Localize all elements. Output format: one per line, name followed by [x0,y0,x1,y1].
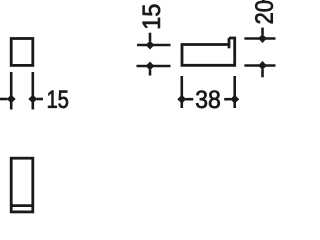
label 20 vertical [255,1,273,24]
dim38 extension line A [181,76,184,108]
dim15 left stub left [0,98,7,101]
dim38 stub right [224,98,231,101]
side view tab left leg [228,38,231,48]
plan view tab line [12,204,33,207]
label 15 horizontal [48,91,68,108]
dim38 stub left [186,98,194,101]
label 15 vertical [143,5,160,28]
dim15 left stub right [37,98,43,101]
dim15v extension top [137,44,171,47]
arrow dim15 left A [7,95,16,104]
dim15v stub top [149,33,152,42]
side view body outline [182,38,235,65]
dim20 stub bottom [261,69,264,77]
dim20 extension top [244,37,275,40]
dim38 extension line B [233,76,236,108]
arrow dim20 A [258,34,267,43]
dim15 left extension line B [31,72,34,110]
dim20 stub image top [262,0,265,2]
arrow dim15v B [146,62,155,71]
arrow dim38 A [177,95,186,104]
arrow dim15 left B [28,95,37,104]
dim15v stub bottom [149,70,152,76]
label 38 [196,90,220,108]
arrow dim15v A [146,41,155,50]
front view rectangle (15 x 20 part) [11,39,33,66]
dim15 left extension line A [10,72,13,110]
dim15v extension bottom [137,65,171,68]
dim20 stub top [261,28,264,35]
dim20 extension bottom [244,64,275,67]
arrow dim20 B [258,61,267,70]
plan view rectangle (15 x 38 part) [11,158,33,212]
arrow dim38 B [230,95,239,104]
